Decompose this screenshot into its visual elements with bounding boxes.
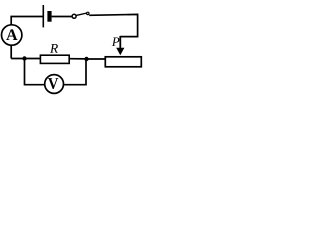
resistor R box <box>40 55 69 63</box>
wire switch to top-right corner, down right side, left to slider <box>89 14 137 36</box>
slider arrowhead <box>116 48 124 56</box>
wire ammeter bottom to rail <box>10 45 12 59</box>
wire left rail to resistor <box>11 58 40 60</box>
ammeter A <box>2 25 22 45</box>
wire node A down to voltmeter rail <box>25 59 45 85</box>
battery cell short thick plate (-) <box>47 11 51 22</box>
rheostat box <box>105 57 141 67</box>
switch blade <box>76 13 87 15</box>
rheostat slider stem <box>119 36 121 49</box>
wire top-left corner to battery <box>11 17 42 25</box>
switch right terminal <box>87 12 89 14</box>
wire voltmeter to node B <box>64 59 86 85</box>
switch S pivot terminal <box>72 14 76 18</box>
label R <box>50 44 58 53</box>
voltmeter V <box>45 75 64 94</box>
battery cell long plate (+) <box>42 5 44 27</box>
node B junction dot <box>84 57 88 61</box>
wire resistor R to node B <box>70 58 87 60</box>
node A junction dot <box>22 56 26 60</box>
label P <box>112 37 120 45</box>
wire battery to switch <box>52 16 73 18</box>
wire node B to rheostat <box>87 58 106 60</box>
